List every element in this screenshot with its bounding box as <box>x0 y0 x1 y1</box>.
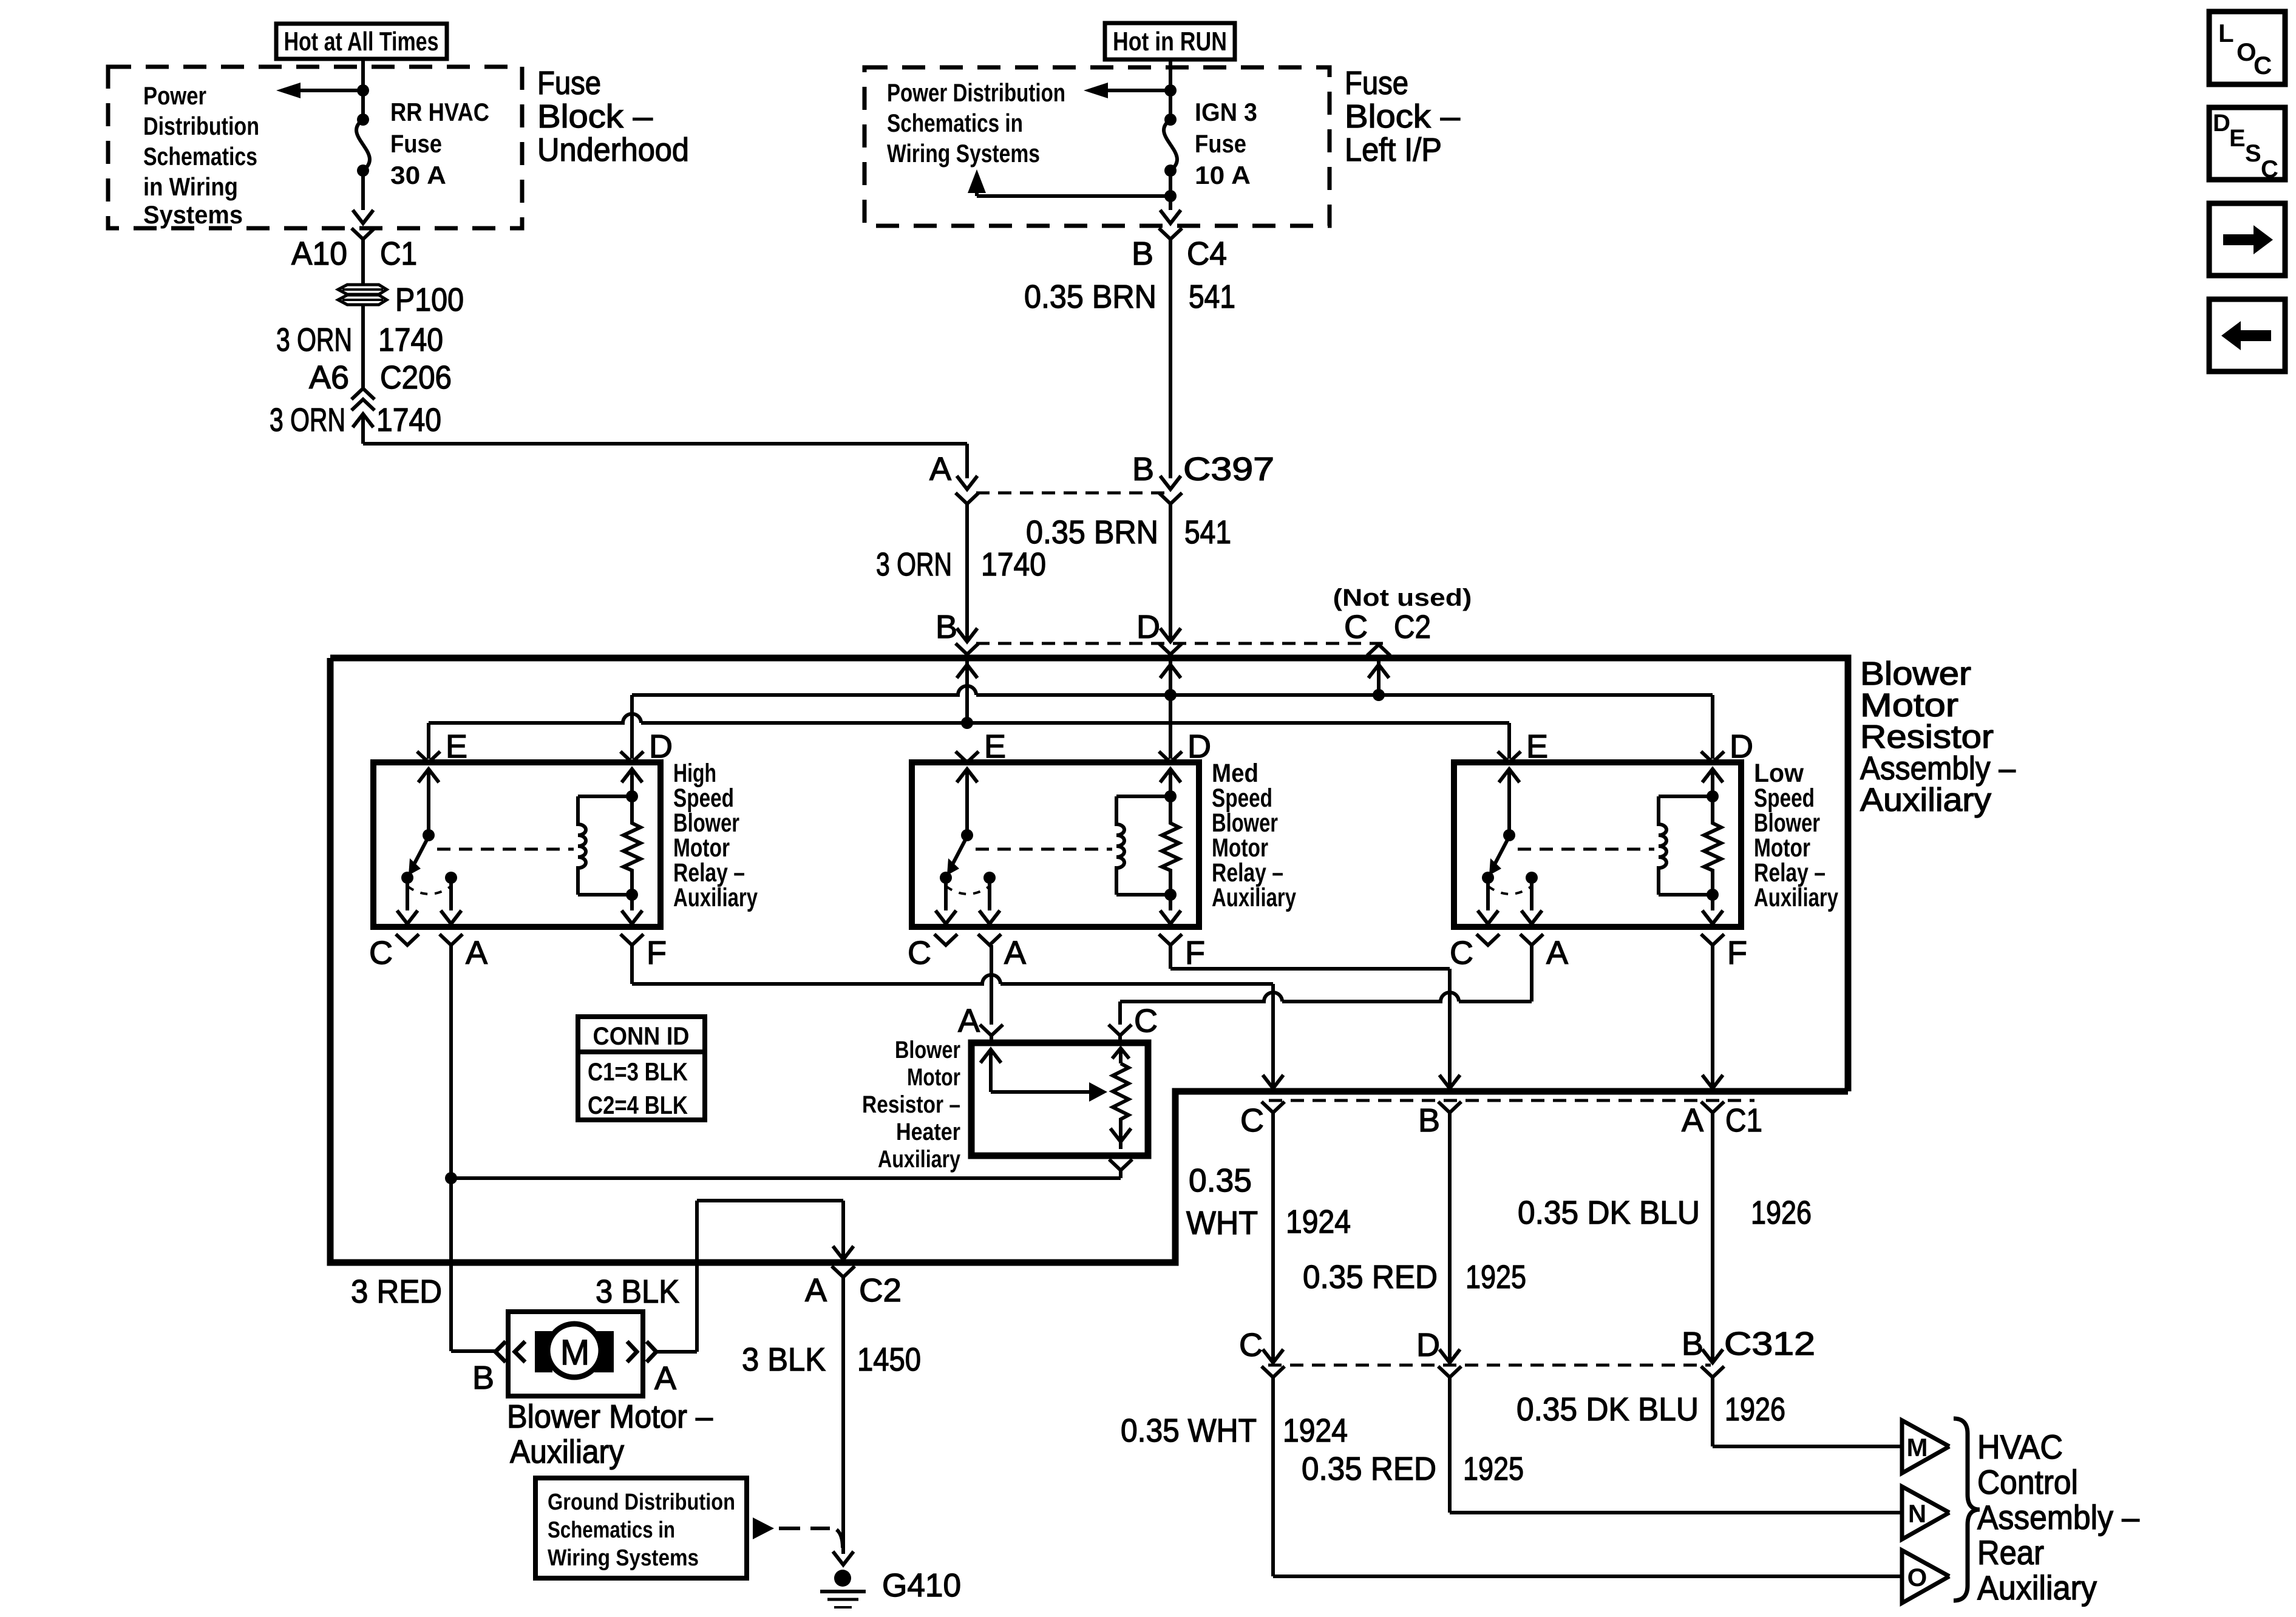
node E bus / B entry <box>961 717 973 729</box>
svg-text:3 ORN: 3 ORN <box>270 402 345 438</box>
relay K2 med speed contact linkage dashed arc <box>946 886 990 894</box>
connector female B (assembly) <box>956 643 979 654</box>
svg-text:Block –: Block – <box>537 98 653 135</box>
brace for HVAC control assembly <box>1954 1419 1980 1601</box>
svg-text:B: B <box>1132 236 1153 272</box>
assembly connector dashed line <box>976 642 1391 645</box>
wire: C1-A to C312 <box>1711 1113 1714 1363</box>
svg-text:Wiring Systems: Wiring Systems <box>887 139 1040 168</box>
svg-text:Hot in RUN: Hot in RUN <box>1113 27 1227 56</box>
wire: C312-D to HVAC N <box>1448 1377 1452 1513</box>
svg-text:Assembly –: Assembly – <box>1977 1498 2140 1536</box>
fuse block left I/P dashed outline <box>864 67 1330 226</box>
svg-text:G410: G410 <box>882 1567 961 1604</box>
arrow at ground <box>833 1551 854 1565</box>
relay K2 med speed pin F chevron <box>1159 934 1182 945</box>
wire: C1-C to C312 <box>1271 1113 1275 1363</box>
svg-text:C: C <box>2254 51 2272 80</box>
wire: heater C riser <box>1118 1002 1122 1025</box>
icon DESC <box>2209 107 2285 180</box>
relay K3 low speed coil bottom node <box>1707 889 1719 901</box>
connector C206 pin A6 (double chevron) <box>352 388 375 399</box>
relay K3 low speed box <box>1454 762 1741 927</box>
ground distribution note box <box>535 1478 747 1578</box>
svg-text:541: 541 <box>1189 279 1235 315</box>
svg-text:E: E <box>2229 125 2246 152</box>
svg-text:1740: 1740 <box>981 546 1046 583</box>
svg-text:L: L <box>2218 19 2234 47</box>
svg-text:1924: 1924 <box>1286 1204 1351 1240</box>
relay K3 low speed contact C node <box>1482 872 1494 884</box>
svg-text:1924: 1924 <box>1283 1412 1348 1449</box>
svg-text:Blower Motor –: Blower Motor – <box>507 1398 713 1435</box>
relay K3 low speed coil top node <box>1707 790 1719 802</box>
svg-text:M: M <box>1907 1433 1928 1462</box>
relay K3 low speed wire contact C to pin <box>1486 878 1490 910</box>
svg-text:Distribution: Distribution <box>143 112 259 140</box>
svg-text:CONN ID: CONN ID <box>593 1022 690 1050</box>
svg-text:Motor: Motor <box>907 1064 960 1091</box>
svg-text:C: C <box>369 935 393 971</box>
wire stub C through box edge <box>1377 656 1381 674</box>
svg-text:0.35 BRN: 0.35 BRN <box>1026 514 1158 551</box>
relay K2 med speed switch pivot node <box>961 829 973 841</box>
ground note arrow <box>753 1517 774 1539</box>
node below IGN3 fuse <box>1164 190 1177 202</box>
wire: B entry down to relay E bus <box>965 665 969 723</box>
HVAC terminal O <box>1902 1550 1949 1603</box>
heater resistor pin A chevron <box>980 1025 1003 1036</box>
relay K1 high speed switch blade <box>414 836 429 864</box>
svg-text:Auxiliary: Auxiliary <box>1860 782 1991 818</box>
connector C397 female B <box>1159 493 1182 504</box>
riser to relay 3 pin E <box>1507 723 1511 759</box>
relay K2 med speed coil <box>1116 796 1124 895</box>
wire: F1 run right with hop over A2 wire <box>632 975 1273 984</box>
svg-text:1925: 1925 <box>1466 1259 1526 1295</box>
arrow into C312 pin C <box>1263 1349 1283 1363</box>
svg-text:C: C <box>2261 156 2278 183</box>
svg-text:A: A <box>958 1003 980 1039</box>
wire stub D through box edge <box>1169 654 1172 674</box>
svg-text:A: A <box>1682 1102 1703 1139</box>
relay K3 low speed pin E chevron <box>1498 751 1521 762</box>
node D bus / D entry <box>1164 689 1177 701</box>
wire: heater return to motor junction <box>1119 1170 1123 1178</box>
relay K2 med speed coil linkage dashed line <box>976 848 1112 851</box>
wire: Hot in RUN feed <box>1169 59 1172 92</box>
svg-text:Auxiliary: Auxiliary <box>1977 1568 2097 1607</box>
relay K2 med speed pin E chevron <box>956 751 979 762</box>
wire: fuse output to block edge <box>361 171 365 210</box>
svg-text:C: C <box>1239 1327 1263 1363</box>
arrow into assembly edge pin A <box>833 1246 854 1259</box>
svg-text:B: B <box>1418 1102 1440 1139</box>
relay K1 high speed resistor <box>623 796 640 895</box>
svg-text:D: D <box>1416 1327 1440 1363</box>
relay K2 med speed switch blade <box>953 836 967 864</box>
svg-text:Block –: Block – <box>1345 98 1460 135</box>
connector C397 female A <box>956 493 979 504</box>
relay K1 high speed pin A chevron <box>440 934 463 945</box>
svg-text:P100: P100 <box>395 282 464 318</box>
wire: 3 BLK 1450 to ground <box>841 1277 845 1554</box>
svg-text:A10: A10 <box>291 236 347 272</box>
relay K3 low speed coil <box>1659 796 1666 895</box>
relay K3 low speed wire coil to pin F <box>1711 895 1714 910</box>
svg-text:1740: 1740 <box>378 322 443 358</box>
svg-text:A: A <box>1546 935 1568 971</box>
relay K3 low speed resistor <box>1704 796 1721 895</box>
svg-text:F: F <box>1185 935 1205 971</box>
bus D (upper) with hop over B wire <box>632 686 1713 695</box>
svg-text:B: B <box>1132 451 1154 487</box>
svg-text:Fuse: Fuse <box>390 129 442 158</box>
svg-text:1740: 1740 <box>376 402 441 438</box>
branch arrow up to power distribution note <box>977 194 1170 198</box>
blower motor resistor heater box <box>971 1043 1148 1156</box>
relay K3 low speed switch pivot node <box>1503 829 1515 841</box>
wire: F2 run right <box>1170 967 1450 971</box>
wire: A10 to P100 <box>361 239 365 285</box>
connector C1 dashed line <box>1269 1099 1754 1102</box>
svg-text:C: C <box>1450 935 1473 971</box>
svg-text:C: C <box>908 935 931 971</box>
icon prev arrow <box>2209 299 2285 371</box>
svg-text:Rear: Rear <box>1977 1533 2044 1571</box>
svg-text:F: F <box>1727 935 1747 971</box>
svg-text:C2: C2 <box>859 1272 902 1309</box>
bus E (lower) with hop over D riser <box>429 714 1509 723</box>
node D bus / C entry <box>1373 689 1385 701</box>
relay K2 med speed arrow inside pin D <box>1160 769 1181 782</box>
svg-text:C206: C206 <box>380 359 452 396</box>
fuse RR HVAC 30A symbol <box>357 114 369 126</box>
wire: P100 to C206 <box>361 305 365 388</box>
svg-text:Auxiliary: Auxiliary <box>1212 883 1296 912</box>
ground note dashed link <box>779 1528 843 1548</box>
svg-text:A: A <box>466 935 487 971</box>
svg-text:3 ORN: 3 ORN <box>276 322 352 358</box>
svg-text:C2: C2 <box>1394 609 1431 645</box>
relay K1 high speed pin F chevron <box>620 934 644 945</box>
svg-text:C: C <box>1344 609 1368 645</box>
wire stub B through box edge <box>965 654 969 674</box>
motor brush left <box>535 1331 552 1372</box>
svg-text:RR HVAC: RR HVAC <box>390 98 489 126</box>
wire: relay3 F down to C1 pin A <box>1711 945 1714 1088</box>
svg-text:Motor: Motor <box>1860 687 1958 724</box>
svg-text:B: B <box>472 1360 494 1396</box>
riser to relay 3 pin D <box>1711 695 1714 759</box>
relay K3 low speed pin C chevron <box>1476 934 1500 945</box>
svg-text:C: C <box>1240 1102 1264 1139</box>
relay K1 high speed arrow inside pin D <box>622 769 642 782</box>
heater outlet chevron <box>1109 1159 1132 1170</box>
relay K3 low speed coil linkage dashed line <box>1518 848 1654 851</box>
connector C1 female B <box>1438 1102 1461 1113</box>
wire: C397-B down to assembly <box>1169 504 1172 642</box>
connector C312 dashed line <box>1268 1364 1711 1367</box>
svg-text:3 ORN: 3 ORN <box>876 546 952 583</box>
arrow inside box pin C <box>1368 665 1389 678</box>
svg-text:Ground Distribution: Ground Distribution <box>548 1490 735 1515</box>
relay K3 low speed wire contact A to pin <box>1530 878 1533 910</box>
svg-text:N: N <box>1908 1499 1926 1528</box>
wire: heater C run to relay3 A with hops <box>1120 992 1532 1002</box>
motor brush right <box>594 1331 614 1372</box>
arrow inside box C1 pin B <box>1439 1075 1460 1088</box>
svg-text:(Not used): (Not used) <box>1333 585 1472 611</box>
relay K2 med speed coil top node <box>1164 790 1177 802</box>
relay K2 med speed resistor <box>1162 796 1179 895</box>
connector C4 pin B (below block) <box>1159 228 1182 239</box>
arrow into C206 <box>353 414 373 427</box>
motor armature circle <box>548 1324 601 1377</box>
relay K2 med speed contact C node <box>940 872 952 884</box>
fuse IGN 3 10A symbol <box>1164 114 1177 126</box>
heater arrow inside pin C <box>1112 1048 1129 1059</box>
svg-text:Blower: Blower <box>895 1037 960 1063</box>
wire: C1-B to C312 <box>1448 1113 1452 1363</box>
heater outlet wire segment <box>1119 1142 1123 1149</box>
label box: Hot in RUN <box>1105 23 1235 59</box>
arrow into C312 pin D <box>1439 1349 1460 1363</box>
svg-text:IGN 3: IGN 3 <box>1195 98 1257 126</box>
arrow to power distribution (left, run) <box>1108 89 1170 92</box>
HVAC terminal N <box>1902 1486 1949 1539</box>
pass-through grommet P100 <box>338 285 387 305</box>
relay K1 high speed wire contact A to pin <box>449 878 453 910</box>
connector female D (assembly) <box>1159 643 1182 654</box>
blower motor resistor assembly outline <box>330 658 1848 1263</box>
relay K3 low speed contact A node <box>1526 872 1538 884</box>
wire: motor A return loop <box>656 1350 697 1354</box>
wire: to block edge (run) <box>1169 196 1172 210</box>
wire: F1 down to C1 pin C <box>1271 984 1275 1088</box>
wire: F2 down to C1 pin B <box>1448 969 1452 1088</box>
relay K2 med speed wire contact A to pin <box>988 878 991 910</box>
svg-text:Schematics: Schematics <box>143 142 257 171</box>
svg-text:C1: C1 <box>380 236 417 272</box>
svg-text:F: F <box>647 935 667 971</box>
svg-text:Assembly –: Assembly – <box>1860 750 2016 787</box>
svg-text:0.35: 0.35 <box>1189 1162 1252 1199</box>
motor terminal A chevrons <box>627 1341 637 1362</box>
relay K3 low speed switch blade <box>1495 836 1509 864</box>
svg-text:Resistor: Resistor <box>1860 719 1994 755</box>
svg-text:Blower: Blower <box>1860 656 1971 692</box>
relay K1 high speed arrow inside pin E <box>418 769 439 782</box>
wire: relay3 A down <box>1530 945 1533 1002</box>
svg-text:0.35 WHT: 0.35 WHT <box>1121 1412 1257 1449</box>
relay K1 high speed contact linkage dashed arc <box>407 886 451 894</box>
svg-text:10 A: 10 A <box>1195 161 1251 189</box>
svg-text:Fuse: Fuse <box>537 65 601 101</box>
relay K1 high speed contact C node <box>401 872 413 884</box>
svg-text:Fuse: Fuse <box>1195 129 1246 158</box>
svg-text:A: A <box>805 1272 827 1309</box>
svg-text:HVAC: HVAC <box>1977 1428 2063 1466</box>
svg-text:B: B <box>936 609 957 645</box>
connector C397 dashed line <box>976 492 1166 495</box>
svg-text:Hot at All Times: Hot at All Times <box>284 27 439 56</box>
svg-text:0.35 RED: 0.35 RED <box>1302 1451 1436 1487</box>
wire: relay2 F down <box>1169 945 1172 969</box>
relay K2 med speed contact A node <box>983 872 996 884</box>
ground G410 symbol <box>834 1570 851 1587</box>
relay K2 med speed coil bottom node <box>1164 889 1177 901</box>
icon next arrow <box>2209 203 2285 276</box>
icon LOC <box>2209 12 2285 84</box>
connector C312 female D <box>1438 1366 1461 1377</box>
label box: Hot at All Times <box>276 24 447 59</box>
svg-text:Systems: Systems <box>143 200 243 229</box>
relay K1 high speed pin C chevron <box>396 934 419 945</box>
arrow inside box pin D <box>1160 665 1181 678</box>
relay K1 high speed pin E chevron <box>417 751 440 762</box>
relay K1 high speed coil top node <box>626 790 638 802</box>
relay K3 low speed pin D chevron <box>1701 751 1724 762</box>
svg-text:Schematics in: Schematics in <box>548 1517 675 1543</box>
HVAC terminal M <box>1902 1420 1949 1473</box>
svg-text:3 RED: 3 RED <box>351 1273 442 1310</box>
svg-text:C: C <box>1134 1003 1158 1039</box>
connector C312 female B <box>1701 1366 1724 1377</box>
svg-text:0.35 DK BLU: 0.35 DK BLU <box>1518 1195 1700 1231</box>
svg-text:C1: C1 <box>1725 1102 1762 1139</box>
relay K3 low speed pin A chevron <box>1520 934 1543 945</box>
wire: 0.35 BRN 541 to C397 <box>1169 239 1172 478</box>
node: relay1 A / heater return junction <box>445 1172 457 1184</box>
arrow into C397 pin A <box>957 476 977 489</box>
relay K2 med speed arrow inside pin E <box>957 769 977 782</box>
relay K2 med speed box <box>912 762 1199 927</box>
arrow into assembly pin B <box>957 628 977 642</box>
svg-text:D: D <box>1136 609 1160 645</box>
relay K2 med speed pin C chevron <box>934 934 957 945</box>
svg-text:Heater: Heater <box>896 1119 960 1145</box>
relay K1 high speed contact A node <box>445 872 457 884</box>
svg-text:in Wiring: in Wiring <box>143 172 238 201</box>
relay K1 high speed box <box>373 762 661 927</box>
relay K2 med speed wire contact C to pin <box>944 878 948 910</box>
wire: 3 ORN 1740 run to C397 <box>361 414 365 444</box>
wire: fuse IGN3 output <box>1169 171 1172 198</box>
svg-text:WHT: WHT <box>1186 1205 1258 1241</box>
svg-text:Power Distribution: Power Distribution <box>887 78 1065 107</box>
arrow to power distribution (left) <box>301 89 363 92</box>
fuse block underhood dashed outline <box>108 67 522 228</box>
wire: C312-C to HVAC O <box>1271 1377 1275 1576</box>
relay K1 high speed coil <box>578 796 586 895</box>
relay K1 high speed wire contact C to pin <box>406 878 409 910</box>
relay K3 low speed contact linkage dashed arc <box>1488 886 1532 894</box>
heater resistor outlet arrow <box>1110 1128 1131 1142</box>
svg-text:1926: 1926 <box>1725 1391 1785 1428</box>
riser to relay 1 pin E <box>427 723 430 759</box>
svg-text:30 A: 30 A <box>390 161 446 189</box>
svg-text:Wiring Systems: Wiring Systems <box>548 1545 699 1571</box>
relay K3 low speed pin F chevron <box>1701 934 1724 945</box>
svg-text:A: A <box>929 451 951 487</box>
svg-text:D: D <box>2213 110 2230 137</box>
svg-text:C2=4 BLK: C2=4 BLK <box>588 1091 688 1119</box>
svg-text:C312: C312 <box>1724 1326 1815 1362</box>
arrow into C312 pin B <box>1702 1349 1723 1363</box>
svg-text:1450: 1450 <box>857 1341 921 1378</box>
relay K1 high speed switch pivot node <box>423 829 435 841</box>
relay K2 med speed pin D chevron <box>1159 751 1182 762</box>
relay K1 high speed coil linkage dashed line <box>437 848 574 851</box>
blower motor auxiliary box <box>508 1312 643 1396</box>
connector C312 female C <box>1262 1366 1285 1377</box>
svg-text:Auxiliary: Auxiliary <box>510 1434 624 1470</box>
relay K1 high speed pin D chevron <box>620 751 644 762</box>
svg-text:Schematics in: Schematics in <box>887 109 1023 137</box>
svg-text:1925: 1925 <box>1463 1451 1524 1487</box>
relay K1 high speed wire coil to pin F <box>630 895 634 910</box>
riser to relay 1 pin D <box>630 695 634 759</box>
svg-text:Power: Power <box>143 81 206 110</box>
svg-text:0.35 BRN: 0.35 BRN <box>1024 279 1156 315</box>
arrow inside box pin B <box>957 665 977 678</box>
CONN ID table box <box>578 1017 705 1120</box>
wire: C312-B to HVAC M <box>1711 1377 1714 1446</box>
wire: relay2 A down to heater resistor <box>990 945 993 1025</box>
svg-text:Auxiliary: Auxiliary <box>673 883 758 912</box>
svg-text:541: 541 <box>1184 514 1231 551</box>
svg-text:M: M <box>560 1333 589 1372</box>
heater resistor pin C chevron <box>1109 1025 1132 1036</box>
arrow into C397 pin B <box>1160 476 1181 489</box>
svg-text:Auxiliary: Auxiliary <box>1754 883 1838 912</box>
connector C1 female A <box>1701 1102 1724 1113</box>
heater resistor element <box>1113 1063 1129 1128</box>
svg-text:Fuse: Fuse <box>1345 65 1408 101</box>
svg-text:C397: C397 <box>1183 451 1274 487</box>
relay K2 med speed pin A chevron <box>978 934 1001 945</box>
connector pin C not used (chevron up) <box>1367 645 1390 656</box>
wire: C397-A down to assembly <box>965 504 969 642</box>
wire: C entry down to D bus <box>1377 665 1381 695</box>
svg-text:Underhood: Underhood <box>537 132 689 168</box>
svg-text:Auxiliary: Auxiliary <box>878 1146 961 1173</box>
wire: Hot at All Times feed <box>361 59 365 92</box>
relay K1 high speed coil bottom node <box>626 889 638 901</box>
connector C1 female C <box>1262 1102 1285 1113</box>
svg-text:Resistor –: Resistor – <box>862 1091 960 1118</box>
wire: relay1 F down <box>630 945 634 984</box>
svg-text:S: S <box>2245 140 2261 167</box>
svg-text:3 BLK: 3 BLK <box>596 1273 679 1310</box>
svg-text:A6: A6 <box>309 359 349 396</box>
wire: relay1 A down to motor feed <box>449 945 453 1351</box>
relay K3 low speed arrow inside pin E <box>1499 769 1520 782</box>
svg-text:0.35 RED: 0.35 RED <box>1303 1259 1438 1295</box>
connector C2 female A (assembly bottom) <box>832 1266 855 1277</box>
svg-text:1926: 1926 <box>1751 1195 1812 1231</box>
arrow inside box C1 pin C <box>1263 1075 1283 1088</box>
connector C1 pin A10 (below block) <box>352 228 375 239</box>
svg-text:C4: C4 <box>1187 236 1227 272</box>
svg-text:C1=3 BLK: C1=3 BLK <box>588 1057 688 1086</box>
heater arrow inside pin A <box>980 1049 1001 1063</box>
svg-text:A: A <box>654 1360 676 1397</box>
heater wiper arrow <box>991 1090 1089 1094</box>
svg-text:Control: Control <box>1977 1463 2078 1501</box>
relay K2 med speed wire coil to pin F <box>1169 895 1172 910</box>
